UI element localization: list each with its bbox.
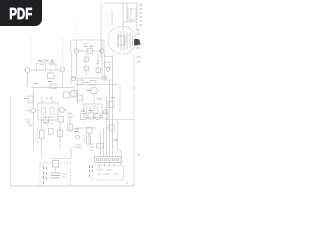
inductor L1 on rail <box>50 84 56 89</box>
wire: mid branch 2 <box>97 54 99 77</box>
jack J4 <box>100 49 104 53</box>
IC block U2 <box>84 104 102 118</box>
wire: U1 to J10 <box>58 109 60 111</box>
transistor Q7 <box>108 124 114 130</box>
tube V5 internal box <box>118 36 125 45</box>
jack J1 <box>25 68 30 73</box>
value labels above rail <box>84 44 93 47</box>
resistor R17 <box>81 114 87 120</box>
label ticks on right border <box>137 57 141 62</box>
pin number labels <box>46 98 53 100</box>
label below U1 <box>44 123 54 125</box>
wire: drop x74 <box>73 87 75 96</box>
capacitor C3 <box>50 108 54 115</box>
jack J10 <box>60 108 65 113</box>
wire: long drop from tube pin to terminal strip <box>112 55 114 156</box>
resistor R15 <box>77 95 83 101</box>
wire: lug drop 4 <box>113 163 115 168</box>
wire: drop x70 <box>69 112 71 132</box>
wire: lug drop 3 <box>109 163 111 168</box>
wire: J9 drop <box>33 113 35 152</box>
tube V5 pin wires <box>118 31 133 51</box>
diode D1 on branch <box>50 61 54 65</box>
wire: long drop 3 <box>106 96 108 156</box>
text rows inside front panel box <box>97 170 119 174</box>
terminal strip lugs <box>96 158 119 161</box>
capacitor C14 <box>96 68 101 73</box>
capacitor C4 <box>44 118 49 123</box>
capacitor C6 <box>49 129 54 135</box>
resistor R3 <box>64 92 70 98</box>
label INPUT <box>74 129 79 132</box>
pin labels column (top right) <box>140 5 143 25</box>
capacitor C10 on rail <box>87 49 93 54</box>
value label near R16 <box>111 97 115 99</box>
resistor R2 <box>28 96 33 103</box>
jack J2 <box>60 67 65 72</box>
label FRONT A/D (rotated) <box>90 165 93 177</box>
wire: J9 left lead <box>26 110 31 112</box>
jack J6 <box>102 76 106 80</box>
wire: vertical feed <box>70 148 72 159</box>
wire: R6 drop <box>41 139 43 159</box>
PDF badge <box>0 0 42 26</box>
wire: stub below tube <box>104 56 113 58</box>
wire: U1 top pin 2 <box>51 96 53 103</box>
wire: right channel left drop <box>76 53 78 76</box>
label POWER SUPPLY (rotated) <box>44 166 47 184</box>
annotation arrow (dark blob) <box>135 39 140 45</box>
value labels row <box>81 110 93 113</box>
capacitor C7 <box>58 130 63 137</box>
wire: tube cathode drop <box>105 53 113 80</box>
wire: C1 drop <box>50 70 52 73</box>
wire: left channel dotted feed 1 <box>30 36 32 68</box>
pin tick marks right of tube <box>137 30 140 48</box>
wire: left drop right channel mid <box>77 85 79 105</box>
tick near right border <box>133 87 138 89</box>
wire: heater bus vertical 2 <box>126 3 128 22</box>
capacitor C20 <box>105 62 111 67</box>
wire: C1 stub <box>54 75 58 77</box>
value column left of R6 <box>37 130 39 142</box>
wire: schematic bottom border <box>11 185 135 187</box>
wire: strip right drop <box>120 157 122 166</box>
resistor R18 <box>88 113 94 119</box>
wire: drop <box>88 134 90 144</box>
capacitor C13 <box>84 66 89 71</box>
fuse F1 <box>53 161 59 168</box>
transformer T1 <box>51 173 61 178</box>
capacitor C17 <box>87 128 93 134</box>
value column <box>84 136 86 142</box>
wire: left channel mid rail <box>31 87 74 89</box>
label below J8 <box>76 145 81 148</box>
wire: J1 left lead <box>24 69 26 71</box>
stray dot bottom <box>126 182 127 183</box>
front panel dashed enclosure <box>92 166 124 181</box>
wire: heater bus vertical 4 <box>136 3 138 30</box>
power supply dashed enclosure <box>40 163 71 186</box>
value labels left of J9 drop <box>26 120 31 123</box>
capacitor C11 <box>84 57 89 62</box>
wire: branch tick <box>45 63 47 70</box>
wire: schematic right border <box>133 55 135 186</box>
resistor R1 on branch <box>40 62 45 65</box>
resistor R21 (hatched) <box>87 136 91 144</box>
wire: drop x41 <box>41 116 43 130</box>
wire: right channel lower rail <box>72 77 106 79</box>
arrow annotation <box>112 139 118 141</box>
IC block U1 <box>38 103 58 120</box>
wire: J9 to U1 <box>36 110 39 112</box>
value labels on rail <box>34 82 53 84</box>
wire: lug drop 1 <box>99 163 101 170</box>
resistor R4 <box>71 91 77 97</box>
resistor R7 <box>68 124 73 131</box>
transistor Q5 <box>91 87 98 94</box>
capacitor C15 <box>87 107 91 113</box>
resistor R5 label <box>29 124 33 126</box>
wire: J2 drop <box>62 72 64 87</box>
wire: right drop <box>119 85 121 113</box>
wire: heater bus vertical 1 <box>122 3 124 30</box>
jack J5 <box>71 76 75 80</box>
wire: lug drop 2 <box>104 163 106 168</box>
wire: heater bus vertical 3 <box>130 8 132 22</box>
wire: right channel right drop <box>101 53 103 76</box>
wire: mid rail right channel <box>76 84 118 86</box>
value label near R14 <box>85 82 89 84</box>
resistor R13 <box>77 80 83 85</box>
resistor R16 <box>108 102 114 108</box>
jack J7 <box>103 110 107 114</box>
wire: heater rung <box>123 21 137 23</box>
wire: drop x60 <box>59 122 61 148</box>
wire: drop to tube from top <box>111 10 113 26</box>
wire: schematic top-right border <box>104 2 137 4</box>
label near T1 <box>62 174 66 177</box>
text inside U1 <box>42 116 54 118</box>
resistor R20 (top right box) <box>128 9 136 20</box>
jack J11 <box>68 113 72 117</box>
capacitor C16 <box>94 107 98 113</box>
wire: U1 bottom pin <box>47 120 49 126</box>
wire: rail to J9 <box>33 88 35 109</box>
jack J8 <box>76 135 80 139</box>
wire: J3 stub to loop <box>76 40 78 49</box>
wire: drop right <box>118 120 122 157</box>
capacitor C5 <box>58 117 64 123</box>
wire: long drop 5 <box>100 132 102 156</box>
wire: schematic left border <box>10 96 12 186</box>
annotation dot <box>138 43 140 45</box>
capacitor C2 <box>42 108 46 115</box>
terminal strip TB1 <box>95 157 122 163</box>
wire: right channel dotted feed <box>75 18 77 36</box>
jack J3 <box>74 49 78 53</box>
value labels above <box>38 60 54 62</box>
ground lug circle <box>106 68 110 72</box>
wire: U1 top pin 1 <box>41 96 43 103</box>
stray dot right margin <box>138 154 139 155</box>
wire: J1 drop <box>27 72 29 87</box>
wire: rail to right border <box>106 119 134 121</box>
resistor R14 <box>90 81 96 86</box>
wire: mid branch 1 <box>85 54 87 77</box>
value label left of R2 <box>24 98 27 100</box>
wire: J4 stub to loop <box>101 40 103 49</box>
label Q5 <box>87 91 103 100</box>
transistor Q6 <box>95 114 101 120</box>
label near VR1 <box>89 144 94 150</box>
wire: right channel top rail <box>74 50 104 52</box>
capacitor C1 <box>48 73 55 79</box>
value label C12 <box>97 61 101 64</box>
wire: rail y128 <box>76 127 96 129</box>
wire: fuse drop <box>55 167 57 172</box>
wire: long drop 4 <box>103 128 105 156</box>
wire: bypass branch <box>37 63 57 70</box>
jack J9 <box>31 108 36 113</box>
wire: bus drop left of tube <box>100 3 102 57</box>
wire: left channel dotted feed 2 <box>62 36 64 67</box>
wire: dotted drop <box>107 13 109 26</box>
wire: J10 right lead <box>65 109 68 111</box>
wire: left channel top rail <box>30 69 60 71</box>
resistor R19 <box>103 113 109 119</box>
wire: feed into power supply <box>50 158 71 160</box>
wire: right channel left edge <box>71 51 73 84</box>
tube V5 envelope (socket circle) <box>108 26 136 54</box>
potentiometer VR1 <box>97 144 104 149</box>
resistor R6 (hatched) <box>40 130 45 139</box>
wire: right channel top loop <box>71 40 105 51</box>
wire: long drop 2 <box>109 80 111 156</box>
